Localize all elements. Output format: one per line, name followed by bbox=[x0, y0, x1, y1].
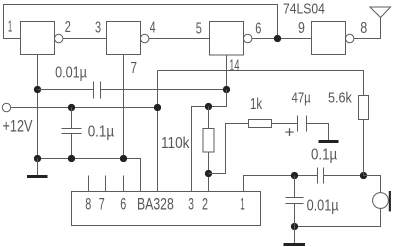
wire 47u to ground bbox=[307, 124, 329, 141]
wire gate A out to gate B in bbox=[63, 38, 107, 40]
node pin1 wire / 0.01u junction bbox=[291, 172, 298, 179]
capacitor C5 0.01u bbox=[286, 176, 304, 227]
node 5.6k bottom bbox=[360, 172, 367, 179]
inverter U1B (pins 3,4) bbox=[107, 22, 149, 55]
svg-text:9: 9 bbox=[298, 20, 305, 37]
node 0.1u cap top bbox=[68, 104, 75, 111]
svg-text:1: 1 bbox=[240, 196, 245, 214]
inverter U1D (pins 9,8) bbox=[312, 22, 354, 55]
node V+ rail junction bbox=[154, 104, 161, 111]
svg-text:4: 4 bbox=[150, 20, 156, 37]
pin 8 stub bbox=[88, 176, 90, 192]
svg-text:5: 5 bbox=[196, 20, 202, 37]
+12V input terminal bbox=[2, 103, 10, 111]
svg-text:7: 7 bbox=[99, 196, 105, 214]
wire mic bottom to ground node bbox=[295, 208, 381, 226]
wire gate B out to gate C in bbox=[149, 38, 210, 40]
ground bbox=[27, 159, 48, 179]
node 110k top bbox=[205, 103, 212, 110]
svg-text:8: 8 bbox=[85, 196, 91, 214]
wire top rail to 5.6k bbox=[158, 71, 364, 96]
wire gate D out to antenna bbox=[354, 18, 381, 39]
wire to capacitor C1 bbox=[38, 89, 94, 91]
svg-text:47µ: 47µ bbox=[292, 90, 311, 107]
svg-text:2: 2 bbox=[65, 19, 71, 36]
op-amp U2 BA328 box bbox=[72, 192, 261, 226]
svg-text:0.01µ: 0.01µ bbox=[307, 197, 339, 214]
svg-text:0.1µ: 0.1µ bbox=[311, 147, 337, 164]
microphone MIC bbox=[373, 191, 391, 211]
svg-text:+: + bbox=[285, 125, 295, 142]
wire V+ line down into BA328 bbox=[157, 71, 159, 192]
ground bbox=[284, 227, 306, 247]
wire +12V rail bbox=[11, 107, 158, 109]
wire node to microphone bbox=[364, 176, 381, 193]
svg-text:5.6k: 5.6k bbox=[328, 90, 352, 107]
wire pin 14 from gate C bottom bbox=[226, 55, 228, 90]
node 0.01u bottom bbox=[291, 223, 298, 230]
wire 0.1u to 5.6k bottom node bbox=[324, 175, 364, 177]
wire from node down-left into BA328 pin 3 bbox=[192, 90, 227, 192]
svg-text:+12V: +12V bbox=[3, 118, 33, 136]
svg-text:0.1µ: 0.1µ bbox=[88, 124, 115, 141]
resistor R1 110k bbox=[203, 107, 214, 192]
svg-text:6: 6 bbox=[255, 20, 261, 37]
svg-text:1: 1 bbox=[8, 19, 12, 36]
wire BA328 pin 1 up and right bbox=[244, 176, 318, 192]
svg-text:2: 2 bbox=[202, 196, 208, 214]
ground rail bbox=[38, 159, 141, 192]
svg-text:8: 8 bbox=[360, 20, 367, 37]
wire C1 right to pin14 node bbox=[101, 89, 227, 91]
inverter U1C (pins 5,6) bbox=[210, 22, 252, 56]
node 0.1u cap bottom bbox=[68, 155, 75, 162]
svg-text:14: 14 bbox=[229, 58, 239, 75]
antenna bbox=[370, 7, 391, 18]
svg-text:0.01µ: 0.01µ bbox=[55, 64, 87, 81]
wire gate A bottom down to ground rail bbox=[37, 55, 39, 159]
resistor R2 1k bbox=[249, 120, 272, 128]
capacitor C3 47u bbox=[298, 116, 307, 132]
pin 6 stub bbox=[123, 176, 125, 192]
svg-text:110k: 110k bbox=[161, 135, 190, 152]
node gate A bottom / cap junction bbox=[34, 86, 41, 93]
wire pin2 node up to 1k resistor bbox=[209, 124, 249, 174]
node pin7 line to ground rail bbox=[120, 155, 127, 162]
pin 7 stub bbox=[105, 176, 107, 192]
capacitor C2 0.1u bbox=[62, 108, 82, 159]
svg-text:74LS04: 74LS04 bbox=[283, 1, 325, 18]
wire 1k to 47u bbox=[272, 123, 298, 125]
wire gate C out to gate D in bbox=[252, 38, 312, 40]
svg-text:7: 7 bbox=[131, 60, 138, 77]
svg-text:1k: 1k bbox=[250, 96, 262, 113]
capacitor C1 0.01u bbox=[94, 82, 101, 99]
ground bbox=[319, 140, 339, 143]
svg-text:6: 6 bbox=[120, 196, 126, 214]
capacitor C4 0.1u bbox=[318, 168, 324, 184]
node ground rail left bbox=[34, 155, 41, 162]
node pin14 / C1 junction bbox=[223, 86, 230, 93]
wire gate B bottom (pin 7) down to ground rail bbox=[123, 55, 125, 159]
svg-text:3: 3 bbox=[95, 19, 101, 36]
inverter U1A (pins 1,2) bbox=[21, 22, 63, 55]
resistor R3 5.6k bbox=[359, 96, 369, 176]
wire feedback loop from gate C output to gate A input bbox=[4, 5, 278, 39]
svg-text:3: 3 bbox=[188, 196, 194, 214]
node 110k bottom / pin 2 bbox=[205, 170, 212, 177]
svg-text:BA328: BA328 bbox=[137, 196, 174, 214]
node gate C output junction bbox=[274, 35, 281, 42]
